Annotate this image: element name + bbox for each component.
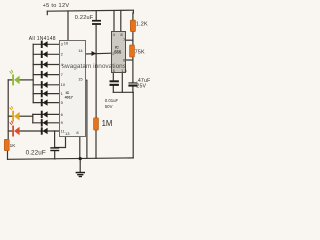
wire 555 pin7 [126,39,133,41]
svg-text:+5 to 12V: +5 to 12V [43,3,70,9]
svg-text:IC: IC [66,91,70,95]
wire right vertical loop to bottom rail [132,92,134,158]
wire 555 pin8 drop [120,11,122,32]
wire diode row 1 [33,43,59,45]
capacitor C2 .47uF electrolytic [128,82,137,86]
diode D4 [41,71,48,78]
svg-text:1.2K: 1.2K [136,22,148,28]
diode D3 [41,61,48,68]
diode D8 [41,111,48,118]
LED yellow [10,106,20,122]
junction dot pin8/ground [79,157,82,160]
IC U1 4017 body [60,41,86,137]
svg-text:0.22uF: 0.22uF [75,15,94,21]
resistor R3 1M [94,118,99,130]
wire diode row 5 [33,84,59,86]
IC U1 pin labels [61,40,84,136]
wire diode row 4 [33,74,59,76]
capacitor C4 0.22uF bottom [50,147,59,151]
diode D7 [41,99,48,106]
svg-text:1M: 1M [102,119,113,128]
svg-text:0.01uF: 0.01uF [105,98,119,103]
svg-text:0.22uF: 0.22uF [26,149,46,156]
resistor R1 1.2K [130,20,135,32]
wire 555 pin6 [126,59,133,61]
wire yellow LED row [8,115,12,117]
svg-text:4017: 4017 [65,96,73,100]
wire rail right corner down to R 1.2K [132,10,135,20]
resistor R2 75K [130,45,135,57]
wire diode row 10 red to pin11 [41,130,59,132]
IC U2 pin labels [112,32,127,73]
wire 555 pin5 down [112,73,114,81]
wire 555 pin1 down [121,73,123,93]
svg-text:75K: 75K [135,50,145,56]
diode D6 [41,90,48,97]
clock arrowhead [92,51,97,56]
wire .47uF to ground loop [132,86,134,92]
wire diode row 9 [33,122,60,124]
diode D9 [41,119,48,126]
wire 4017 pin8 to rail [79,136,81,158]
svg-text:13: 13 [65,131,70,136]
wire cap1 column upper [95,11,97,20]
wire 1M lower to rail [95,130,97,158]
capacitor C3 0.01uF [110,80,119,86]
svg-text:10: 10 [61,82,66,87]
wire 555 pin4 drop [113,11,115,32]
diode D1 [41,41,48,48]
svg-text:555: 555 [114,49,122,54]
wire 0.01uF to loop [112,86,114,92]
wire between 1.2K and 75K [132,32,134,45]
wire 4017 pin15 stub and down [85,80,87,158]
wire rail end tick [46,11,48,14]
wire 0.22uF bottom cap to rail [54,151,56,159]
wire diode row 7 [33,102,59,104]
LED red [10,121,20,137]
svg-text:1K: 1K [10,143,17,148]
wire left rail below 1K [7,151,9,160]
IC U2 555 body [112,32,126,73]
svg-text:All 1N4148: All 1N4148 [29,36,56,42]
wire below 75K [132,57,134,82]
svg-text:25V: 25V [136,83,146,89]
wire yellow group bracket [32,114,34,122]
wire diode row 2 [33,53,59,55]
capacitor C1 0.22uF top [92,20,101,25]
wire left rail LED anode bus [7,80,9,139]
wire green LED row [8,79,12,81]
svg-text:swagatam innovations: swagatam innovations [62,63,126,70]
wire cap1 column lower to 1M [95,25,97,118]
wire ground stub [79,159,81,172]
resistor R4 1K [4,139,9,150]
LED green [10,70,20,86]
ground symbol [76,172,85,177]
svg-text:15: 15 [78,76,83,81]
wire pin16 drop [67,11,69,41]
wire ground loop horizontal [113,91,133,93]
wire top supply rail [47,10,133,11]
svg-text:14: 14 [78,48,83,53]
wire diode row 3 [33,64,59,66]
svg-text:50V: 50V [105,104,113,109]
wire bottom ground rail [8,158,134,159]
diode D2 [41,51,48,58]
diode D10 [41,127,48,134]
wire 4017 pin13 down-left to cap [55,131,66,148]
wire green group bus [32,44,34,102]
wire diode row 8 [33,113,60,115]
wire red LED row [8,130,12,132]
svg-text:16: 16 [64,40,69,45]
wire diode row 6 [33,93,59,95]
wire clock line 4017 pin14 to 555 pin2 [85,52,111,55]
diode D5 [41,81,48,88]
